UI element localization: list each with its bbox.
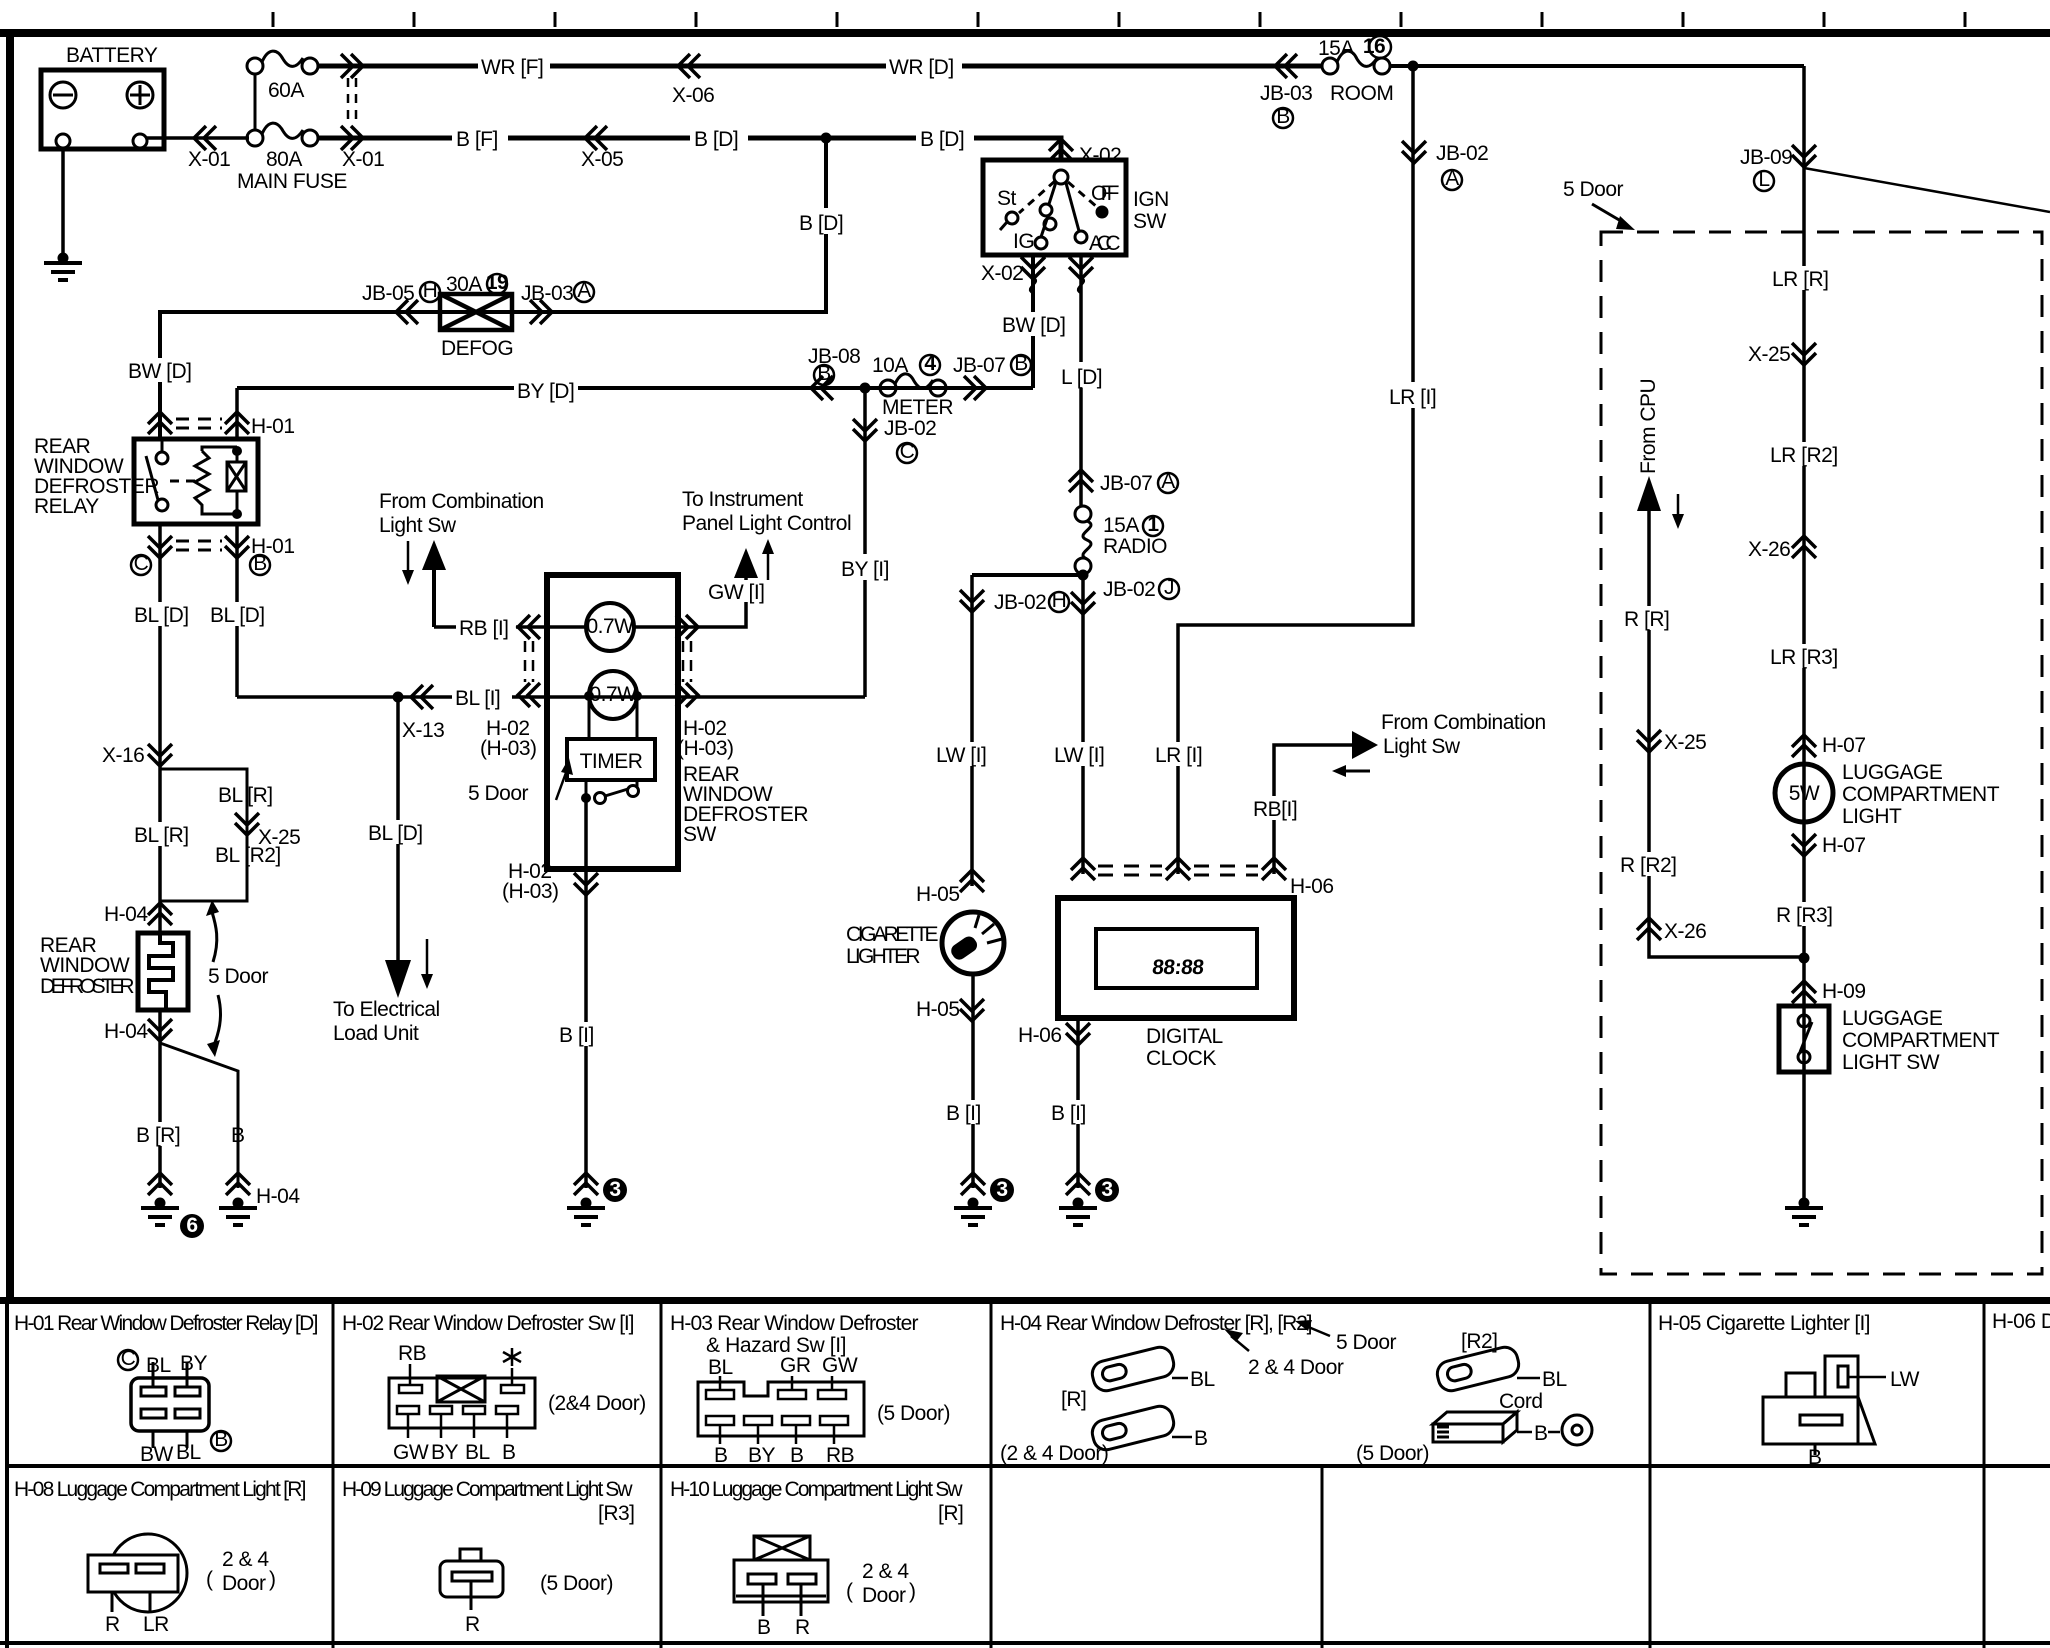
svg-text:H-09 Luggage Compartment Light: H-09 Luggage Compartment Light Sw — [342, 1478, 633, 1501]
svg-text:LIGHTER: LIGHTER — [846, 945, 920, 968]
ground clock — [1059, 1198, 1097, 1226]
svg-text:JB-02: JB-02 — [1103, 578, 1155, 601]
svg-text:(H-03): (H-03) — [480, 737, 537, 760]
wire BY [I] illumination — [863, 388, 867, 697]
wire B [I] lighter to ground — [971, 974, 975, 1188]
svg-text:BY: BY — [431, 1441, 459, 1464]
svg-text:16: 16 — [1363, 35, 1385, 58]
svg-text:H-07: H-07 — [1822, 734, 1866, 757]
label BL [D] left — [132, 602, 192, 627]
svg-text:2 & 4: 2 & 4 — [862, 1560, 909, 1583]
label LW [I] right — [1052, 742, 1114, 767]
connector H-01 top pair — [148, 412, 172, 434]
connector X-01 battery side — [194, 126, 216, 150]
fuse 15A RADIO — [1075, 506, 1091, 574]
H-04 terminal BL (R2) — [1435, 1345, 1522, 1394]
connector H-09 — [1792, 981, 1816, 1003]
connector H-02 left pair — [518, 615, 540, 639]
digital clock box — [1058, 898, 1294, 1018]
node junction B[D] branch — [821, 133, 832, 144]
page left border frame — [6, 29, 14, 1300]
svg-text:COMPARTMENT: COMPARTMENT — [1842, 783, 2000, 806]
dashed 5 Door box — [1601, 232, 2042, 1274]
wire WR [F]/[D] row — [318, 64, 1322, 69]
svg-text:(H-03): (H-03) — [502, 880, 559, 903]
rear window defroster element — [138, 933, 188, 1010]
label R [R2] — [1618, 852, 1684, 877]
svg-text:GW: GW — [822, 1354, 858, 1377]
svg-text:(: ( — [846, 1580, 853, 1603]
wire BL [I] row relay to BY[I] corner — [237, 695, 865, 699]
svg-text:BL [D]: BL [D] — [368, 822, 423, 845]
connector JB-09 L — [1792, 145, 1816, 167]
svg-text:From Combination: From Combination — [1381, 711, 1546, 734]
bulb 0.7W bottom — [589, 671, 637, 719]
svg-text:B: B — [1534, 1422, 1548, 1445]
svg-text:B: B — [817, 362, 831, 385]
svg-text:J: J — [1164, 576, 1174, 599]
rear window defroster switch box — [547, 575, 678, 869]
svg-text:Light Sw: Light Sw — [379, 514, 457, 537]
luggage compartment light switch — [1779, 1006, 1829, 1072]
fuse DEFOG 30A — [440, 294, 512, 330]
H-04 terminal B (R) — [1090, 1404, 1177, 1453]
svg-text:JB-09: JB-09 — [1740, 146, 1792, 169]
svg-text:BL: BL — [176, 1441, 201, 1464]
svg-text:X-26: X-26 — [1748, 538, 1790, 561]
connector H-01 bottom pair — [148, 536, 172, 558]
svg-text:B: B — [1014, 352, 1028, 375]
cigarette lighter — [942, 912, 1004, 974]
svg-text:2 & 4 Door: 2 & 4 Door — [1248, 1356, 1344, 1379]
ground defroster sw — [567, 1198, 605, 1226]
ground battery — [44, 253, 82, 281]
ground connector arrow defroster — [574, 1173, 598, 1195]
svg-text:WINDOW: WINDOW — [40, 954, 130, 977]
svg-text:B [D]: B [D] — [920, 128, 964, 151]
bulb 0.7W top — [586, 603, 634, 651]
ground badge 3 defroster — [603, 1178, 627, 1202]
svg-text:CLOCK: CLOCK — [1146, 1047, 1216, 1070]
relay coil — [227, 451, 246, 514]
svg-text:TIMER: TIMER — [580, 750, 643, 773]
svg-text:(5 Door): (5 Door) — [540, 1572, 613, 1595]
svg-text:[R]: [R] — [1061, 1388, 1086, 1411]
fuse 10A METER — [880, 374, 946, 396]
svg-text:SW: SW — [683, 823, 717, 846]
svg-text:Load Unit: Load Unit — [333, 1022, 419, 1045]
wire LW [I] to clock — [1081, 575, 1085, 874]
svg-text:Cord: Cord — [1499, 1390, 1543, 1413]
connector H-06 bottom — [1066, 1023, 1090, 1045]
svg-text:From Combination: From Combination — [379, 490, 544, 513]
svg-text:JB-08: JB-08 — [808, 345, 860, 368]
label RB [I] — [456, 615, 516, 640]
ground luggage — [1785, 1198, 1823, 1226]
svg-text:R [R2]: R [R2] — [1620, 854, 1677, 877]
svg-text:BL [R]: BL [R] — [134, 824, 189, 847]
arrow to instrument panel (filled) — [734, 548, 758, 578]
svg-text:BW: BW — [140, 1443, 174, 1466]
svg-text:DIGITAL: DIGITAL — [1146, 1025, 1223, 1048]
svg-text:BL: BL — [1190, 1368, 1215, 1391]
relay switch contact — [146, 441, 196, 511]
arrow to electrical load unit (filled) — [385, 960, 411, 998]
svg-text:H-01 Rear Window Defroster Rel: H-01 Rear Window Defroster Relay [D] — [14, 1312, 318, 1335]
wire BL [D] relay right down to BL[I] row — [235, 524, 239, 697]
svg-text:(2&4 Door): (2&4 Door) — [548, 1392, 646, 1415]
node dots beside bottom bulb — [584, 691, 594, 701]
svg-text:LW: LW — [1890, 1368, 1920, 1391]
table grid lines — [0, 1300, 2050, 1648]
svg-text:L: L — [1758, 168, 1769, 191]
svg-text:L [D]: L [D] — [1061, 366, 1102, 389]
ground connector arrow H-04 — [226, 1173, 250, 1195]
svg-text:5 Door: 5 Door — [468, 782, 529, 805]
ground connector arrow clock — [1066, 1173, 1090, 1195]
svg-text:LUGGAGE: LUGGAGE — [1842, 1007, 1943, 1030]
wire L [D] from IGN ACC down — [1079, 255, 1083, 506]
svg-text:RB [I]: RB [I] — [459, 617, 509, 640]
svg-text:Panel Light Control: Panel Light Control — [682, 512, 851, 535]
label LR [R3] — [1768, 644, 1840, 669]
connector H-02 right pair — [676, 615, 698, 639]
label B [R] — [134, 1122, 192, 1147]
svg-text:LUGGAGE: LUGGAGE — [1842, 761, 1943, 784]
svg-text:X-25: X-25 — [1748, 343, 1790, 366]
ground connector arrow lighter — [961, 1173, 985, 1195]
label GW [I] — [706, 580, 770, 604]
svg-text:BY [D]: BY [D] — [517, 380, 574, 403]
svg-text:R: R — [465, 1613, 480, 1636]
connector METER JB-02 C drop — [853, 419, 877, 441]
wire LW [I] to cigarette lighter — [970, 575, 974, 886]
svg-text:5 Door: 5 Door — [1336, 1331, 1397, 1354]
luggage compartment light 5W — [1775, 764, 1833, 822]
svg-text:SW: SW — [1133, 210, 1167, 233]
H-10 connector drawing — [734, 1536, 828, 1616]
svg-text:BL [R]: BL [R] — [218, 784, 273, 807]
H-04 cord terminal (5 door) — [1433, 1412, 1517, 1442]
label BW [D] — [999, 312, 1066, 337]
svg-text:H-03 Rear Window Defroster: H-03 Rear Window Defroster — [670, 1312, 919, 1335]
arrow from comb light sw thin down — [407, 541, 410, 572]
svg-text:R: R — [105, 1613, 120, 1636]
svg-text:(5 Door): (5 Door) — [877, 1402, 950, 1425]
svg-text:X-16: X-16 — [102, 744, 144, 767]
svg-text:B: B — [790, 1444, 804, 1467]
svg-text:RB: RB — [398, 1342, 426, 1365]
svg-text:BY: BY — [748, 1444, 776, 1467]
svg-text:COMPARTMENT: COMPARTMENT — [1842, 1029, 2000, 1052]
connector X-26 inner — [1637, 918, 1661, 940]
svg-text:GW [I]: GW [I] — [708, 581, 765, 604]
fuse 60A — [247, 51, 318, 130]
svg-text:R [R3]: R [R3] — [1776, 904, 1833, 927]
label B [D] vertical — [795, 208, 853, 235]
label R [R] — [1622, 606, 1678, 631]
svg-text:BW [D]: BW [D] — [1002, 314, 1066, 337]
connector H-02 bottom — [574, 873, 598, 895]
tick marks above top border — [273, 12, 1965, 27]
arrow thin down — [1677, 494, 1680, 516]
svg-text:LIGHT: LIGHT — [1842, 805, 1902, 828]
svg-text:BY: BY — [180, 1352, 208, 1375]
main fuse 80A — [247, 123, 318, 146]
svg-text:R [R]: R [R] — [1624, 608, 1669, 631]
connector X-05 — [585, 126, 607, 150]
wire junction to JB-02 H — [972, 573, 1083, 577]
svg-text:1: 1 — [1147, 513, 1159, 536]
connector X-25 branch — [235, 813, 259, 835]
svg-text:JB-03: JB-03 — [521, 282, 573, 305]
svg-text:H: H — [423, 279, 438, 302]
svg-text:[R3]: [R3] — [598, 1502, 635, 1525]
wire top bulb row — [634, 576, 746, 627]
page top border frame — [0, 29, 2050, 37]
svg-text:H-05: H-05 — [916, 998, 960, 1021]
H-05 lighter drawing — [1763, 1356, 1875, 1455]
svg-text:BL: BL — [465, 1441, 490, 1464]
svg-text:H-01: H-01 — [251, 415, 295, 438]
svg-text:C: C — [900, 440, 915, 463]
svg-text:(5 Door): (5 Door) — [1356, 1442, 1429, 1465]
svg-text:B: B — [214, 1428, 228, 1451]
svg-text:To Instrument: To Instrument — [682, 488, 803, 511]
connector X-26 right — [1792, 536, 1816, 558]
wires bulb to timer — [589, 696, 637, 788]
connector JB-05 H — [396, 300, 418, 324]
svg-text:GR: GR — [780, 1354, 811, 1377]
ground lighter — [954, 1198, 992, 1226]
svg-text:LR [R2]: LR [R2] — [1770, 444, 1838, 467]
svg-text:DEFOG: DEFOG — [441, 337, 513, 360]
label B [F] — [452, 124, 508, 151]
svg-text:H-04 Rear Window Defroster [R]: H-04 Rear Window Defroster [R], [R2] — [1000, 1312, 1312, 1335]
wire LR [I] drop from junction — [1178, 66, 1413, 874]
svg-text:B: B — [502, 1441, 516, 1464]
svg-text:RB: RB — [826, 1444, 854, 1467]
svg-text:OFF: OFF — [1091, 182, 1119, 205]
svg-text:BL: BL — [1542, 1368, 1567, 1391]
svg-text:[R]: [R] — [938, 1502, 963, 1525]
svg-text:H-05: H-05 — [916, 883, 960, 906]
battery terminal posts — [56, 134, 147, 148]
H-03 connector drawing — [698, 1382, 864, 1436]
svg-text:B [I]: B [I] — [559, 1024, 594, 1047]
svg-text:X-02: X-02 — [1079, 144, 1121, 167]
svg-text:B [I]: B [I] — [946, 1102, 981, 1125]
label B [I] defroster — [556, 1022, 610, 1047]
connector H-04 above defroster — [148, 903, 172, 925]
svg-text:X-01: X-01 — [342, 148, 384, 171]
svg-text:Door: Door — [222, 1572, 266, 1595]
svg-text:LW [I]: LW [I] — [936, 744, 986, 767]
svg-text:B: B — [1808, 1446, 1822, 1469]
svg-text:B [I]: B [I] — [1051, 1102, 1086, 1125]
svg-text:H-06: H-06 — [1290, 875, 1334, 898]
label BL [D] right — [208, 602, 268, 627]
svg-text:WR [F]: WR [F] — [481, 56, 543, 79]
svg-text:Door: Door — [862, 1584, 906, 1607]
connector JB-02 J — [1071, 592, 1095, 614]
svg-text:B: B — [714, 1444, 728, 1467]
label B [D] right — [916, 124, 974, 151]
svg-text:H-04: H-04 — [256, 1185, 300, 1208]
node junction below RADIO fuse — [1078, 570, 1089, 581]
label BY [I] — [838, 554, 896, 581]
svg-text:4: 4 — [924, 352, 936, 375]
svg-text:JB-07: JB-07 — [953, 354, 1005, 377]
svg-text:H-02 Rear Window Defroster Sw: H-02 Rear Window Defroster Sw [I] — [342, 1312, 634, 1335]
svg-text:Light Sw: Light Sw — [1383, 735, 1461, 758]
H-08 lamp connector drawing — [88, 1534, 187, 1612]
svg-text:BL [R2]: BL [R2] — [215, 844, 281, 867]
connector JB-07 A — [1069, 470, 1093, 492]
relay REAR WINDOW DEFROSTER RELAY box — [134, 439, 258, 524]
ground connector arrow left — [148, 1173, 172, 1195]
arrow from comb light sw filled up — [422, 540, 446, 570]
ground badge 6 — [180, 1214, 204, 1238]
ground badge 3 lighter — [990, 1178, 1014, 1202]
svg-text:LR: LR — [143, 1613, 169, 1636]
svg-text:H-10 Luggage Compartment Light: H-10 Luggage Compartment Light Sw — [670, 1478, 963, 1501]
label LR [R] — [1770, 266, 1832, 291]
wire diagonal to right edge — [1804, 168, 2050, 212]
label WR [D] — [886, 52, 962, 79]
label LW [I] left — [934, 742, 996, 767]
svg-text:LR [R3]: LR [R3] — [1770, 646, 1838, 669]
H-01 connector drawing — [131, 1378, 209, 1431]
H-04 terminal BL (R) — [1090, 1345, 1177, 1394]
svg-text:LW [I]: LW [I] — [1054, 744, 1104, 767]
relay coil junction dots — [232, 446, 242, 456]
svg-text:BL: BL — [146, 1354, 171, 1377]
svg-text:BL [D]: BL [D] — [134, 604, 189, 627]
wire R [R] column — [1649, 508, 1804, 957]
svg-text:(H-03): (H-03) — [677, 737, 734, 760]
svg-text:RELAY: RELAY — [34, 495, 99, 518]
connector JB-07 B — [964, 376, 986, 400]
svg-text:H-04: H-04 — [104, 903, 148, 926]
svg-text:MAIN FUSE: MAIN FUSE — [237, 170, 347, 193]
svg-text:C: C — [134, 552, 149, 575]
svg-text:): ) — [269, 1568, 276, 1591]
ground badge 3 clock — [1095, 1178, 1119, 1202]
svg-text:GW: GW — [393, 1441, 429, 1464]
connector X-25 inner — [1637, 730, 1661, 752]
wire BL [D] to electrical load unit — [396, 697, 400, 962]
svg-text:ACC: ACC — [1089, 232, 1120, 255]
label BL [I] — [452, 685, 512, 710]
wire switch to bottom exit — [584, 798, 588, 1188]
svg-text:B: B — [231, 1124, 245, 1147]
svg-text:LR [I]: LR [I] — [1389, 386, 1436, 409]
node junction after ROOM fuse — [1408, 61, 1419, 72]
svg-text:H: H — [1052, 589, 1067, 612]
svg-text:H-05 Cigarette Lighter [I]: H-05 Cigarette Lighter [I] — [1658, 1312, 1870, 1335]
svg-text:H-07: H-07 — [1822, 834, 1866, 857]
svg-text:B [D]: B [D] — [694, 128, 738, 151]
svg-text:B [F]: B [F] — [456, 128, 498, 151]
wire battery negative to ground — [61, 148, 65, 256]
svg-text:LR [I]: LR [I] — [1155, 744, 1202, 767]
svg-text:B: B — [1276, 105, 1290, 128]
svg-text:5 Door: 5 Door — [208, 965, 269, 988]
svg-text:X-26: X-26 — [1664, 920, 1706, 943]
svg-text:60A: 60A — [268, 79, 304, 102]
svg-text:H-08 Luggage Compartment Light: H-08 Luggage Compartment Light [R] — [14, 1478, 306, 1501]
label BY [D] — [514, 378, 578, 403]
svg-text:BL: BL — [708, 1356, 733, 1379]
wire 5-door loop branch — [160, 769, 247, 901]
svg-text:A: A — [1161, 470, 1175, 493]
ground 2&4 door branch — [219, 1198, 257, 1226]
svg-text:30A: 30A — [446, 273, 482, 296]
svg-text:JB-02: JB-02 — [994, 591, 1046, 614]
wire battery positive to main fuse — [147, 136, 249, 140]
svg-text:B: B — [757, 1616, 771, 1639]
svg-text:BW [D]: BW [D] — [128, 360, 192, 383]
svg-text:B [D]: B [D] — [799, 212, 843, 235]
ignition switch internals — [1000, 170, 1097, 249]
svg-text:BL [D]: BL [D] — [210, 604, 265, 627]
wire BW [D] from IGN IG down — [1031, 255, 1035, 388]
label BW [D] left column — [126, 358, 192, 383]
wire 2&4 door branch to ground — [160, 1043, 238, 1188]
battery minus terminal symbol — [50, 82, 76, 108]
node junction R/LR — [1799, 953, 1810, 964]
svg-text:X-05: X-05 — [581, 148, 623, 171]
connector H-06 top trio — [1071, 858, 1095, 880]
svg-text:X-25: X-25 — [1664, 731, 1706, 754]
svg-text:BL [I]: BL [I] — [455, 687, 500, 710]
svg-text:JB-07: JB-07 — [1100, 472, 1152, 495]
svg-text:0.7W: 0.7W — [589, 683, 637, 706]
wire LR [R] main right column — [1802, 66, 1806, 1200]
connector H-07 below bulb — [1792, 834, 1816, 856]
ignition switch IGN SW box — [983, 160, 1126, 255]
connector H-04 below defroster — [148, 1019, 172, 1041]
wire relay coil feed up — [235, 388, 239, 439]
svg-text:IGN: IGN — [1133, 188, 1169, 211]
svg-text:5 Door: 5 Door — [1563, 178, 1624, 201]
connector JB-02 H — [960, 590, 984, 612]
node junction METER branch — [860, 383, 871, 394]
label RB[I] — [1250, 796, 1302, 821]
connector X-02 top — [1049, 139, 1073, 161]
label WR [F] — [478, 52, 550, 79]
svg-text:80A: 80A — [266, 148, 302, 171]
defroster switch contact — [581, 793, 591, 803]
svg-text:B [R]: B [R] — [136, 1124, 180, 1147]
svg-text:3: 3 — [996, 1178, 1007, 1201]
svg-text:LR [R]: LR [R] — [1772, 268, 1829, 291]
wire RB [I] from combination light sw — [1274, 745, 1352, 874]
battery B1 body — [41, 70, 164, 149]
connector H-07 above bulb — [1792, 735, 1816, 757]
svg-text:IG: IG — [1013, 230, 1034, 253]
arrow to instrument panel (thin) — [767, 552, 770, 584]
connector JB-03 A — [530, 300, 552, 324]
connector JB-08 B — [811, 376, 833, 400]
svg-text:RADIO: RADIO — [1103, 535, 1167, 558]
svg-text:JB-03: JB-03 — [1260, 82, 1312, 105]
connector H-05 top — [960, 870, 984, 892]
svg-text:X-06: X-06 — [672, 84, 714, 107]
wire BL [D] relay left down — [158, 524, 162, 933]
svg-text:B: B — [253, 552, 267, 575]
